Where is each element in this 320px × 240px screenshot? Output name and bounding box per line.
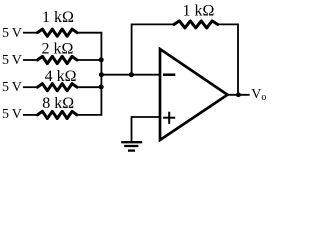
wire: R2 to bus node (77, 59, 101, 61)
wire: R4 to bus node (77, 114, 101, 116)
op-amp U1 (160, 49, 228, 140)
op-amp non-inverting sign + (163, 112, 175, 124)
wire: op-amp output (228, 94, 250, 96)
svg-text:5 V: 5 V (2, 53, 22, 68)
wire: feedback left riser (132, 24, 174, 74)
svg-text:5 V: 5 V (2, 80, 22, 95)
svg-text:8 kΩ: 8 kΩ (42, 95, 74, 112)
op-amp inverting sign − (163, 73, 175, 76)
wire: bus to op-amp inverting input (101, 74, 160, 76)
svg-text:1 kΩ: 1 kΩ (183, 2, 215, 19)
wire: R3 to bus node (77, 86, 101, 88)
wire: feedback right drop to output (218, 24, 238, 94)
node: bus / inverting-wire junction (99, 72, 104, 77)
node: output junction (236, 92, 241, 97)
resistor R4 (37, 111, 77, 118)
wire: row-2 source lead (23, 59, 39, 61)
resistor R2 (37, 56, 77, 63)
svg-text:5 V: 5 V (2, 26, 22, 41)
wire: summing bus vertical (100, 32, 102, 116)
resistor R3 (37, 84, 77, 91)
wire: non-inverting input to ground (132, 117, 161, 142)
resistor RF (feedback) (174, 21, 218, 28)
resistor R1 (37, 29, 77, 36)
wire: row-1 source lead (23, 32, 39, 34)
svg-text:1 kΩ: 1 kΩ (42, 9, 74, 26)
node: bus / row-2 junction (99, 57, 104, 62)
svg-text:4 kΩ: 4 kΩ (45, 68, 77, 85)
ground (121, 142, 142, 150)
wire: row-3 source lead (23, 86, 39, 88)
svg-text:2 kΩ: 2 kΩ (42, 41, 74, 58)
wire: R1 to bus node (77, 32, 101, 34)
node: feedback tap on inverting input (129, 72, 134, 77)
node: bus / row-3 junction (99, 84, 104, 89)
svg-text:Vo: Vo (251, 87, 266, 103)
wire: row-4 source lead (23, 114, 39, 116)
svg-text:5 V: 5 V (2, 107, 22, 122)
